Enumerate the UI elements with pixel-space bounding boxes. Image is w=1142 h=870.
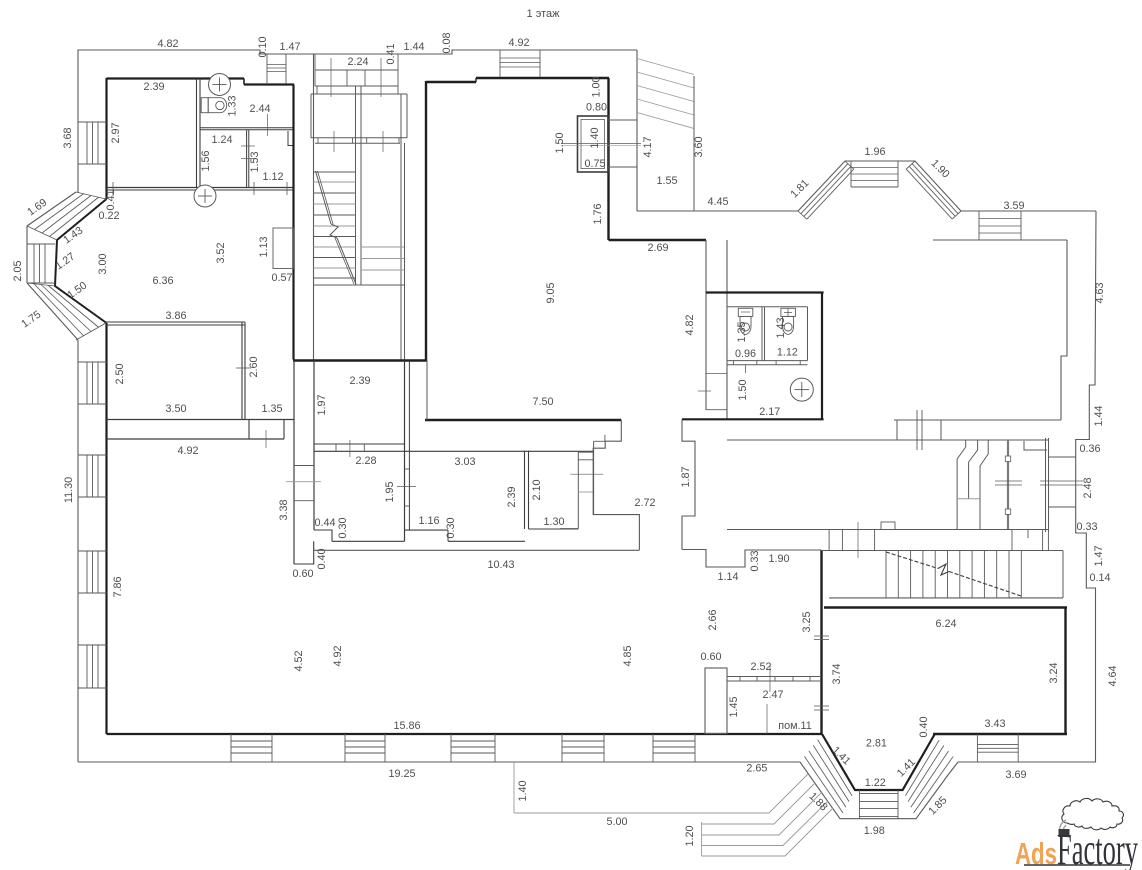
svg-text:1.97: 1.97 (316, 394, 328, 415)
wall: inner face of left wall upper (105, 78, 107, 199)
wall: partition between 2.39 and bath x=198 (196, 79, 198, 188)
vertical x=604.9 joining window alcove (604, 435, 606, 442)
svg-text:2.28: 2.28 (355, 455, 376, 467)
watermark AdsFactory logo cloud (1062, 798, 1124, 829)
wall: bath interior horizontal y=128.5 (200, 127, 293, 129)
svg-text:пом.11: пом.11 (778, 720, 811, 732)
svg-text:0.10: 0.10 (257, 36, 269, 57)
wall: room 2.28 west x=314 (313, 361, 315, 531)
window bay left diagonal (1.41/1.88) (818, 740, 852, 796)
svg-text:4.92: 4.92 (177, 445, 198, 457)
svg-text:1.14: 1.14 (717, 571, 738, 583)
wall: strip wall x=294 down to 564 (293, 361, 295, 565)
wall: bottom-right bay outer outline (800, 762, 958, 819)
dim tick 0.41 left (112, 182, 114, 196)
svg-text:4.82: 4.82 (157, 38, 178, 50)
svg-text:19.25: 19.25 (388, 768, 415, 780)
door jambs across strip x294-314 (294, 465, 314, 467)
wall: пом.11 east wall x=821.5 thick (820, 550, 822, 734)
wall: stairwell east wall x=403 (400, 94, 402, 360)
svg-text:3.25: 3.25 (801, 611, 813, 632)
wall: left bay inner outline (6.36 room) (55, 199, 107, 323)
svg-text:2.39: 2.39 (506, 486, 518, 507)
svg-text:6.36: 6.36 (152, 275, 173, 287)
door wall x=1008 with posts (1007, 440, 1009, 530)
svg-text:3.43: 3.43 (984, 718, 1005, 730)
wall: stairwell west wall x=313.5 (313, 54, 315, 360)
window 1.96 band top bay (850, 161, 852, 187)
wall: terrace east edge x=637 (636, 50, 638, 211)
svg-text:0.08: 0.08 (441, 32, 453, 53)
svg-text:1.45: 1.45 (728, 696, 740, 717)
wall: big room bottom y=420 (425, 419, 621, 421)
svg-text:1.22: 1.22 (865, 777, 886, 789)
window 2.24 stairwell top band (315, 69, 398, 71)
wall: bathroom block bottom y=188 (107, 187, 295, 189)
corridor wall y=550 (10.43) (314, 549, 640, 551)
wall: outer right side with jogs (958, 211, 1096, 762)
svg-text:1.12: 1.12 (262, 171, 283, 183)
svg-text:2.39: 2.39 (143, 81, 164, 93)
wall: terrace south edge y=211 (4.45) (637, 210, 798, 212)
svg-text:0.33: 0.33 (749, 550, 761, 571)
svg-text:0.60: 0.60 (292, 568, 313, 580)
svg-text:4.17: 4.17 (642, 136, 654, 157)
wall: right notch in bath x=288 (288, 131, 293, 146)
stair flight 2 treads (right) (361, 246, 405, 248)
window W5 left wall y362-404 (78, 361, 107, 363)
wall: outer bottom edge y=762 (78, 761, 800, 763)
svg-text:2.50: 2.50 (114, 363, 126, 384)
window 1.81 diagonal band (798, 211, 807, 219)
svg-text:0.40: 0.40 (316, 548, 328, 569)
svg-text:3.52: 3.52 (215, 242, 227, 263)
svg-text:2.65: 2.65 (746, 763, 767, 775)
svg-text:9.05: 9.05 (545, 282, 557, 303)
dim tick on 2.44 wall x=267 (266, 114, 268, 136)
wall: big room east wall lower and corridor top y=240 (609, 239, 707, 241)
dim tick vertical пом.11 (766, 704, 768, 734)
svg-text:4.52: 4.52 (293, 650, 305, 671)
svg-text:1.43: 1.43 (775, 317, 787, 338)
watermark chimney (1059, 829, 1070, 837)
svg-text:1.90: 1.90 (768, 553, 789, 565)
wall: outer top-left perimeter (77, 340, 79, 762)
window W1 left wall y122-164 (78, 121, 107, 123)
svg-text:7.50: 7.50 (532, 396, 553, 408)
wall: WC block east x=822 (821, 293, 823, 419)
fixture: sink in 2.17 room (790, 378, 813, 401)
dim tick 1.95 on x=407 wall (397, 486, 416, 488)
svg-text:1.30: 1.30 (543, 516, 564, 528)
svg-text:4.64: 4.64 (1107, 665, 1119, 686)
window W2 left bay vertical y244-283 (27, 243, 55, 245)
svg-text:0.40: 0.40 (918, 716, 930, 737)
svg-text:1.00: 1.00 (591, 76, 603, 97)
svg-text:0.96: 0.96 (735, 348, 756, 360)
corridor 1.87 pilaster wall (682, 419, 695, 549)
svg-text:0.36: 0.36 (1079, 443, 1100, 455)
svg-text:2.44: 2.44 (249, 103, 270, 115)
svg-text:1.20: 1.20 (684, 825, 696, 846)
wall: room 1.30 bottom y=529 (529, 528, 579, 530)
door tick marks on bath bottom wall (253, 182, 255, 195)
wall: room 3.86 east x=243.5 (241, 322, 243, 419)
window W7 left wall y551-593 (78, 550, 107, 552)
wall: corridor wall y=529.5 (727, 529, 1048, 531)
wall: bottom-right bay inner outline (822, 734, 935, 790)
fixture: toilet right cubicle (781, 308, 796, 316)
svg-text:1.50: 1.50 (554, 132, 566, 153)
svg-text:3.60: 3.60 (693, 136, 705, 157)
svg-text:2.66: 2.66 (707, 609, 719, 630)
wall: пом.11 west closet pillar 0.60 (705, 668, 727, 734)
svg-text:0.80: 0.80 (586, 102, 607, 114)
partition 2.52 with ticks (727, 676, 820, 678)
svg-text:3.00: 3.00 (97, 253, 109, 274)
WC cubicles box (727, 306, 808, 308)
svg-text:5.00: 5.00 (606, 816, 627, 828)
svg-text:1.47: 1.47 (1093, 545, 1105, 566)
wall: big room top y=82 then y=78 (426, 81, 476, 83)
svg-text:0.41: 0.41 (385, 43, 397, 64)
window 2.48 jambs right wall (1049, 456, 1076, 458)
svg-text:1.76: 1.76 (592, 203, 604, 224)
wall: terrace inner vertical x=694 (693, 76, 695, 211)
svg-text:1.44: 1.44 (403, 41, 424, 53)
corridor entry offset walls 1.14/0.33 (682, 550, 822, 568)
wall: 1.16 stub wall y=530.1 (405, 529, 449, 531)
wall: room 6.24 east x=1065.5 (1064, 608, 1066, 735)
dim tick x=266 (265, 430, 267, 448)
svg-text:0.14: 0.14 (1089, 572, 1110, 584)
wall band y 419-439 (3.50/1.35) (107, 419, 294, 421)
svg-text:2.39: 2.39 (349, 375, 370, 387)
dim tick x=858 (857, 522, 859, 558)
wall: WC block top y=292.5 (706, 291, 824, 293)
svg-text:1.47: 1.47 (279, 41, 300, 53)
dim ticks below landing (333, 131, 335, 152)
watermark underline (1024, 864, 1130, 866)
wall: rooms bottom y=541.3 (332, 540, 405, 542)
wall: bath/duct east wall x=293.5 (292, 85, 294, 360)
stair direction arrow diagonal with break (316, 171, 332, 224)
svg-text:1.44: 1.44 (1093, 405, 1105, 426)
wall: thin wall x=427 from 360 to 420 (426, 361, 428, 421)
wall: right room east wall with jog (1061, 240, 1067, 420)
wall: WC block bottom y=419 (682, 418, 824, 420)
stairs 2 landing right edge (1062, 551, 1064, 598)
landing lower edge small verticals (317, 138, 319, 144)
svg-text:0.30: 0.30 (337, 517, 349, 538)
fixture: toilet top-left (201, 98, 208, 113)
wall: inner face of left wall lower x=106.5 (105, 323, 107, 734)
wall: rooms 2.28/3.03 divider x=404.5/409.4 (404, 361, 406, 542)
svg-text:1.13: 1.13 (258, 236, 270, 257)
svg-text:3.24: 3.24 (1048, 662, 1060, 683)
duct box 1.13x0.57 (273, 228, 294, 269)
wall: room 2.28 bottom notch 0.44/0.30 (314, 530, 332, 541)
svg-text:2.24: 2.24 (347, 56, 368, 68)
svg-text:0.57: 0.57 (271, 272, 292, 284)
window 1.47 band x267-286 (266, 54, 268, 84)
svg-text:0.33: 0.33 (1076, 521, 1097, 533)
window 3.59 band (978, 211, 980, 240)
wall: big room east wall x=608.5 (607, 78, 609, 240)
svg-text:2.97: 2.97 (110, 122, 122, 143)
connector lines from window box to terrace edge (608, 119, 637, 121)
svg-text:3.03: 3.03 (454, 456, 475, 468)
stairs 2 treads (885, 551, 887, 598)
svg-text:1.50: 1.50 (737, 379, 749, 400)
window bay right diagonal (1.41/1.85) (905, 740, 939, 796)
svg-text:1.16: 1.16 (418, 515, 439, 527)
svg-text:1 этаж: 1 этаж (527, 8, 561, 20)
wall: room 2.28 top band y=444/451.3 (314, 443, 405, 445)
door tick on 3.86 east wall (236, 367, 251, 369)
svg-text:2.10: 2.10 (531, 479, 543, 500)
niche corner right of WC (1024, 441, 1047, 450)
svg-text:11.30: 11.30 (63, 477, 75, 503)
svg-text:1.35: 1.35 (261, 403, 282, 415)
svg-text:1.55: 1.55 (656, 175, 677, 187)
wall: top-right bay outline (798, 161, 1096, 211)
svg-text:6.24: 6.24 (935, 618, 956, 630)
svg-text:0.60: 0.60 (700, 651, 721, 663)
wall: room 6.24 top y=607.5 (824, 606, 1067, 608)
wall: corridor west x=706 and east x=727 (705, 240, 707, 410)
svg-text:4.45: 4.45 (707, 196, 728, 208)
fixture: sink circle at bath bottom (194, 185, 216, 207)
window W8 left wall y645-688 (78, 644, 107, 646)
svg-text:1.40: 1.40 (589, 127, 601, 148)
bottom windows in south wall (230, 734, 232, 762)
hatch: terrace diagonal lines (637, 59, 694, 75)
svg-text:0.30: 0.30 (445, 517, 457, 538)
svg-text:0.22: 0.22 (98, 210, 119, 222)
svg-text:2.69: 2.69 (647, 242, 668, 254)
svg-text:4.63: 4.63 (1094, 282, 1106, 303)
svg-text:1.35: 1.35 (736, 321, 748, 342)
svg-text:2.81: 2.81 (866, 738, 887, 750)
svg-text:1.56: 1.56 (200, 150, 212, 171)
svg-text:0.44: 0.44 (314, 517, 335, 529)
double tick x=917-922 (916, 410, 918, 450)
corridor ticks (706, 373, 727, 375)
window 3.43 band (976, 734, 978, 762)
window 4.92 top band (499, 50, 501, 77)
wall: room 6.24 bottom y=734 (933, 733, 1067, 735)
stair flight 1 bottom edge y=285 (314, 284, 405, 286)
window ticks on пом.11 east wall (814, 635, 829, 637)
wall: room B east x=1047 (1045, 438, 1047, 532)
svg-text:Factory: Factory (1057, 825, 1138, 870)
stair landing upper (311, 93, 407, 95)
stairs 2 diagonal dashed with break (886, 552, 938, 569)
wall: bottom inner face y=734 (107, 733, 823, 735)
svg-text:1.33: 1.33 (227, 95, 239, 116)
window bay bottom (1.22) (858, 790, 860, 819)
wall band y420-440 right wing (894, 419, 1061, 421)
wall: window partition x=526.5 (2.39/2.10) (524, 451, 526, 530)
window W6 left wall y455-497 (78, 454, 107, 456)
svg-text:1.96: 1.96 (864, 146, 885, 158)
svg-text:3.69: 3.69 (1005, 769, 1026, 781)
WC shelf double line (727, 360, 808, 362)
door leaf box on corridor wall (881, 522, 895, 530)
svg-text:2.60: 2.60 (248, 356, 260, 377)
window W3 bay upper diagonal (1.69) (76, 192, 106, 199)
window W4 bay lower diagonal (1.75) (27, 283, 55, 286)
svg-text:4.92: 4.92 (332, 645, 344, 666)
2.72 step structure east of big room (593, 420, 639, 550)
door ticks on divider x=247.5 (241, 145, 255, 147)
window box in big room east wall (1.40x0.75) (578, 116, 609, 172)
svg-text:2.05: 2.05 (12, 260, 24, 281)
svg-text:3.74: 3.74 (831, 663, 843, 684)
dim tick 0.96 (745, 365, 747, 373)
svg-text:1.87: 1.87 (680, 466, 692, 487)
svg-text:3.50: 3.50 (165, 403, 186, 415)
svg-text:1.40: 1.40 (517, 780, 529, 801)
svg-text:2.17: 2.17 (759, 406, 780, 418)
window alcove right of room 1.30 (577, 451, 579, 529)
svg-text:2.48: 2.48 (1082, 477, 1094, 498)
stairs 2: top and bottom edges (820, 550, 1063, 552)
wall: outer top above stairwell (314, 50, 637, 54)
svg-text:1.24: 1.24 (211, 134, 232, 146)
svg-text:1.53: 1.53 (249, 151, 261, 172)
chimney flues S-curves (957, 440, 966, 530)
svg-text:0.41: 0.41 (105, 189, 117, 210)
wall: room 3.86 top y=323.5 (107, 321, 246, 323)
dim tick across window box (561, 143, 641, 145)
svg-text:15.86: 15.86 (393, 720, 420, 732)
stair flight 1 treads (314, 171, 356, 173)
wall: stair center double line x=358 (355, 86, 357, 285)
watermark smoke trail (1060, 820, 1066, 835)
svg-text:3.59: 3.59 (1003, 200, 1024, 212)
wall: top wall of room 2.39 y=78.5 (107, 77, 245, 79)
wall: right room top y=240 (933, 239, 1067, 241)
svg-text:1.98: 1.98 (864, 825, 885, 837)
svg-text:3.68: 3.68 (62, 127, 74, 148)
svg-text:3.38: 3.38 (278, 499, 290, 520)
wall: big room west wall x=426 (425, 81, 427, 361)
dim ticks on window 2.24 (330, 58, 332, 97)
svg-text:4.85: 4.85 (622, 645, 634, 666)
svg-text:1.95: 1.95 (384, 481, 396, 502)
wall: bath interior vertical x=247.5 (246, 130, 248, 187)
svg-text:4.82: 4.82 (684, 314, 696, 335)
fixture: sink circle top (209, 74, 231, 96)
svg-text:0.75: 0.75 (584, 158, 605, 170)
fixture: toilet left cubicle (738, 308, 753, 316)
dim double ticks 2.48 glass (995, 480, 1022, 482)
wall: step down to y=84.5 over WC (243, 79, 245, 85)
window 1.90 diagonal band (906, 161, 915, 169)
svg-text:10.43: 10.43 (487, 559, 514, 571)
svg-text:2.72: 2.72 (634, 497, 655, 509)
wall: thick wall below stair shaft y=360 (293, 359, 427, 361)
svg-text:7.86: 7.86 (112, 576, 124, 597)
svg-text:2.47: 2.47 (762, 689, 783, 701)
svg-text:2.52: 2.52 (750, 661, 771, 673)
svg-text:3.86: 3.86 (165, 310, 186, 322)
exterior steps around entrance bay (513, 762, 515, 813)
svg-text:1.12: 1.12 (777, 347, 798, 359)
svg-text:4.92: 4.92 (508, 37, 529, 49)
